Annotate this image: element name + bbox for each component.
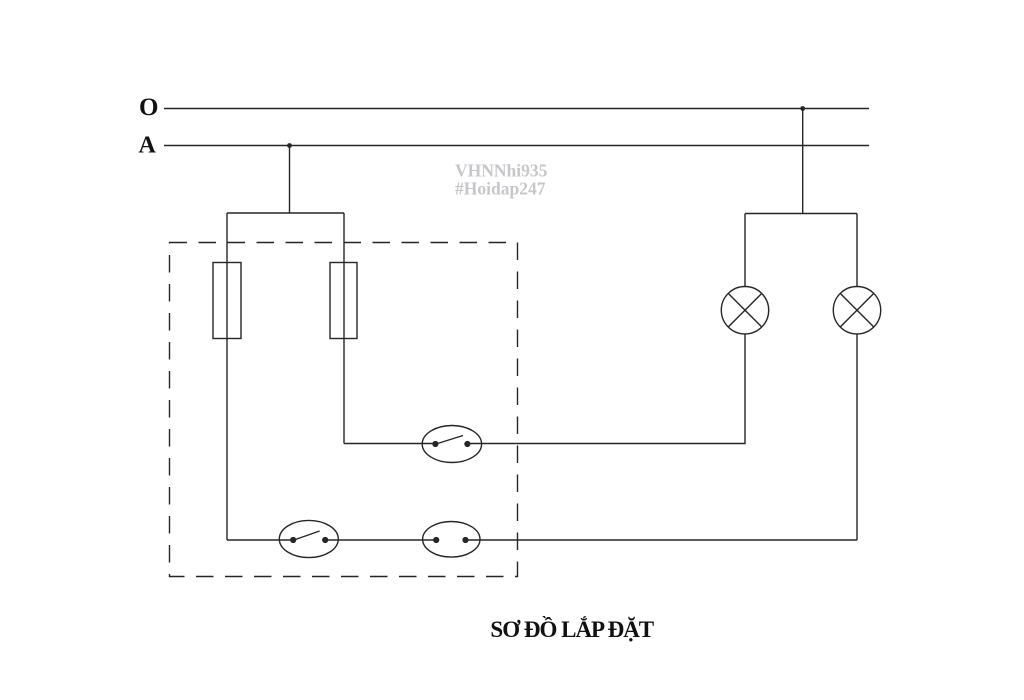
switch S2 pole dots: [290, 537, 296, 543]
wire: below lamp L2 down to bottom run: [856, 334, 858, 540]
switch S3 body: [423, 522, 480, 558]
switch S1 pole dots: [432, 441, 438, 447]
svg-text:#Hoidap247: #Hoidap247: [455, 179, 546, 199]
fuse F1: [213, 263, 241, 339]
wire: phase line A: [164, 145, 869, 147]
svg-text:A: A: [139, 132, 157, 158]
wire: bottom run from F1 branch to switch S2: [227, 539, 293, 541]
lamp L1: [721, 287, 768, 334]
wire: middle run from F2 to switch S1: [344, 443, 435, 445]
wire: left branch through fuse F1: [226, 213, 228, 540]
wire: between S2 and S3: [325, 539, 436, 541]
switch S1 body: [422, 426, 481, 463]
distribution board (dashed enclosure): [170, 243, 518, 577]
wire: phase line O: [164, 108, 869, 110]
node: junction on line O: [800, 106, 805, 111]
node: junction on line A: [287, 143, 292, 148]
wire: from S1 to lamp L1: [468, 334, 746, 444]
fuse F2: [330, 263, 357, 339]
wire: drop from line O: [802, 109, 804, 214]
svg-text:SƠ ĐỒ LẮP ĐẶT: SƠ ĐỒ LẮP ĐẶT: [490, 616, 653, 642]
wire: above lamp L2: [856, 214, 858, 287]
lamp L2: [833, 287, 880, 334]
svg-text:O: O: [139, 94, 158, 121]
wire: from S3 to lamp L2 drop: [466, 539, 857, 541]
switch S3 pole dots: [433, 537, 439, 543]
switch S2 body: [279, 520, 338, 557]
wire: top header of board loop: [227, 212, 344, 214]
switch S1 lever: [436, 436, 463, 445]
wire: drop from line A: [289, 146, 291, 214]
wire: top right header: [745, 213, 857, 215]
wire: above lamp L1: [744, 214, 746, 287]
svg-text:VHNNhi935: VHNNhi935: [455, 161, 548, 181]
wire: right branch through fuse F2: [343, 213, 345, 444]
switch S2 lever: [294, 531, 320, 540]
